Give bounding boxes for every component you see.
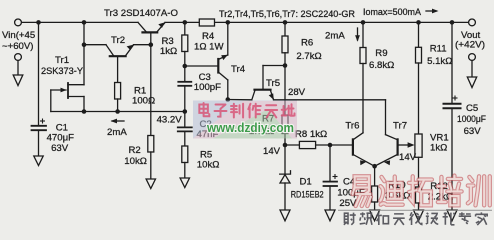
wire Tr2 emitter to node: [134, 44, 151, 46]
ground (C4): [325, 210, 335, 221]
svg-text:14V: 14V: [399, 152, 417, 163]
svg-text:Tr5: Tr5: [266, 78, 280, 89]
node Tr2 base: [82, 42, 87, 47]
capacitor C2: [178, 127, 192, 131]
resistor R6: [282, 36, 288, 53]
wire Tr4 collector down: [227, 80, 229, 100]
svg-text:63V: 63V: [51, 143, 69, 154]
resistor R4 (on rail): [199, 19, 214, 26]
diode D1 (zener RD15EB2): [280, 145, 291, 210]
wire C4 to ground: [329, 186, 331, 210]
wire R12 to ground: [418, 203, 420, 210]
ground (C1): [34, 156, 43, 166]
wire node to Tr4 base: [185, 65, 219, 67]
current arrow 2mA (left): [111, 119, 125, 124]
wire Tr4 emitter to rail: [227, 22, 229, 55]
resistor R8 (horizontal): [299, 141, 315, 148]
ground (R12): [414, 210, 424, 221]
svg-text:Tr3 2SD1407A-O: Tr3 2SD1407A-O: [104, 8, 178, 19]
svg-text:RD15EB2: RD15EB2: [291, 190, 324, 201]
svg-text:www.dzdiy.com: www.dzdiy.com: [206, 121, 294, 135]
watermark text dianzizhizuotiandi (drawn strokes): [199, 103, 294, 117]
resistor R5: [182, 146, 188, 163]
wire R8 to Tr6 base: [316, 144, 353, 146]
wire VR1 to R12: [418, 157, 420, 187]
plus sign C5: [453, 96, 458, 101]
svg-text:2mA: 2mA: [107, 127, 127, 138]
node rail/C1: [36, 20, 41, 25]
ground (R2): [146, 179, 155, 189]
wire C3 to bus: [184, 86, 186, 127]
wire Tr5 emitter to Tr7 collector (long): [274, 99, 386, 101]
wire 14V node to R8: [285, 144, 299, 146]
capacitor C1: [32, 126, 47, 130]
svg-text:63V: 63V: [464, 126, 482, 137]
terminal Vout+: [469, 19, 476, 26]
ground (D1): [280, 210, 290, 221]
wire R2 to ground: [150, 152, 152, 179]
resistor R3: [182, 35, 188, 52]
wire R6 to node 28V: [284, 53, 286, 66]
transistor Tr5: [252, 66, 274, 100]
watermark center box: [193, 101, 297, 139]
wire rail to R11: [418, 22, 420, 47]
svg-text:R11: R11: [430, 44, 447, 55]
wire C1 branch: [38, 22, 40, 124]
svg-text:Tr2,Tr4,Tr5,Tr6,Tr7: 2SC2240-G: Tr2,Tr4,Tr5,Tr6,Tr7: 2SC2240-GR: [219, 8, 355, 19]
transistor Tr4: [218, 55, 228, 80]
wire R5 to ground: [184, 163, 186, 179]
svg-text:14V: 14V: [263, 146, 281, 157]
svg-text:10kΩ: 10kΩ: [124, 156, 147, 167]
potentiometer VR1: [415, 134, 422, 157]
wire rail to C5: [451, 22, 453, 103]
current arrow 2mA (right, down): [355, 28, 360, 42]
wire C4 branch: [329, 145, 331, 181]
node rail/R9: [361, 20, 366, 25]
node rail/R6: [283, 20, 288, 25]
node rail/Tr4: [226, 20, 231, 25]
node emitters: [372, 164, 377, 169]
plus sign C1: [40, 119, 45, 124]
resistor R9: [360, 48, 366, 64]
wire Tr7 base to VR1 wiper: [398, 144, 411, 146]
node 43.2V: [149, 42, 154, 47]
svg-text:43.2V: 43.2V: [157, 115, 183, 126]
wire top rail right segment (output): [165, 21, 469, 23]
svg-text:Vin(+45: Vin(+45: [2, 30, 35, 41]
wire emitters to R10: [374, 166, 376, 186]
node C4 tap: [328, 143, 333, 148]
svg-text:D1: D1: [300, 177, 312, 188]
node rail/R3: [183, 20, 188, 25]
wire Tr5 base to R6 node: [263, 65, 285, 67]
capacitor C4: [324, 182, 338, 186]
ground (R10): [370, 210, 380, 221]
wire 28V node to R7: [284, 66, 286, 116]
svg-text:Tr2: Tr2: [111, 35, 125, 46]
wiper arrow VR1: [408, 142, 415, 148]
svg-text:28V: 28V: [288, 87, 306, 98]
svg-text:1Ω 1W: 1Ω 1W: [194, 42, 225, 53]
node 28V: [283, 63, 288, 68]
wire R9 to Tr6 collector: [362, 64, 364, 133]
node rail/Tr1: [82, 20, 87, 25]
wire C5 to ground: [451, 109, 453, 210]
svg-text:R8 1kΩ: R8 1kΩ: [295, 129, 327, 140]
svg-text:R9: R9: [375, 48, 387, 59]
plus sign C4: [333, 174, 338, 179]
transistor Tr7: [375, 135, 398, 167]
resistor R7: [282, 115, 288, 134]
capacitor C5: [444, 104, 461, 108]
transistor Tr6: [353, 133, 375, 166]
svg-text:Tr7: Tr7: [393, 121, 407, 132]
svg-text:~+60V): ~+60V): [2, 41, 33, 52]
node rail/C5: [450, 20, 455, 25]
wire 43.2V node down (node 43.2V): [150, 45, 152, 136]
svg-text:R2: R2: [129, 145, 141, 156]
wire bus (2mA bus): [51, 111, 185, 113]
svg-text:C5: C5: [466, 103, 478, 114]
svg-text:Tr1: Tr1: [55, 55, 69, 66]
wire Tr4/Tr5 collectors: [228, 99, 252, 101]
wire top rail left segment (input): [22, 21, 139, 23]
wire R1 to bus: [117, 99, 119, 112]
svg-text:Tr4: Tr4: [231, 64, 246, 75]
resistor R11: [416, 47, 422, 63]
wire R7 to 14V node: [284, 134, 286, 146]
svg-text:2.7kΩ: 2.7kΩ: [296, 51, 321, 62]
ground (output): [467, 61, 476, 88]
svg-text:2mA: 2mA: [325, 31, 345, 42]
watermark gray text shepin... (drawn strokes): [344, 212, 487, 225]
current arrow Iomax: [426, 9, 439, 14]
node rail/R11: [416, 20, 421, 25]
node R3/C3/Tr4: [183, 64, 188, 69]
wire R10 to ground: [374, 202, 376, 210]
svg-text:100pF: 100pF: [194, 82, 221, 93]
svg-text:5.1kΩ: 5.1kΩ: [427, 56, 452, 67]
terminal Vout-: [469, 54, 476, 61]
svg-text:Iomax=500mA: Iomax=500mA: [363, 7, 422, 18]
terminal Vin+: [15, 19, 22, 26]
wire Tr7 collector drop: [385, 100, 387, 135]
node bus/Tr1: [82, 109, 87, 114]
wire rail to R6: [284, 22, 286, 36]
svg-text:6.8kΩ: 6.8kΩ: [369, 60, 394, 71]
svg-text:100Ω: 100Ω: [132, 96, 155, 107]
svg-text:1000μF: 1000μF: [457, 114, 486, 125]
svg-text:R4: R4: [202, 31, 215, 42]
svg-text:470μF: 470μF: [47, 133, 75, 144]
wire rail to Tr1/Tr2 node: [83, 22, 85, 44]
resistor R2: [148, 136, 154, 153]
ground (C5): [447, 210, 457, 221]
wire C1 to ground: [38, 131, 40, 156]
capacitor C3: [178, 82, 191, 86]
transistor Tr2: [106, 45, 134, 83]
svg-text:R6: R6: [301, 38, 313, 49]
watermark red yiditapeixun (drawn strokes): [353, 176, 490, 206]
ground (R5): [180, 178, 189, 188]
resistor R12: [416, 187, 422, 203]
node bus/R1: [115, 109, 120, 114]
wire C2 to R5: [184, 132, 186, 146]
svg-text:1kΩ: 1kΩ: [160, 46, 177, 57]
resistor R1: [115, 83, 121, 100]
node Tr4/Tr5 collectors: [226, 97, 231, 102]
wire rail to R9: [362, 22, 364, 47]
node bus/C3/C2: [183, 109, 188, 114]
wire R3 to C3 node: [184, 52, 186, 82]
transistor Tr1 (JFET 2SK373-Y): [51, 45, 84, 112]
terminal Vin-: [15, 54, 22, 61]
ground (input): [13, 61, 23, 86]
svg-text:2SK373-Y: 2SK373-Y: [41, 66, 84, 77]
wire R11 to VR1: [418, 63, 420, 134]
svg-text:Tr6: Tr6: [345, 121, 359, 132]
node 14V: [283, 143, 288, 148]
resistor R10: [372, 186, 378, 202]
transistor Tr3: [138, 22, 165, 44]
svg-text:1kΩ: 1kΩ: [430, 143, 447, 154]
svg-text:10kΩ: 10kΩ: [197, 160, 220, 171]
watermark gray line: [338, 209, 492, 211]
wire node to Tr2 base: [84, 44, 106, 46]
svg-text:(+42V): (+42V): [455, 40, 485, 51]
wire rail to R3: [184, 22, 186, 35]
